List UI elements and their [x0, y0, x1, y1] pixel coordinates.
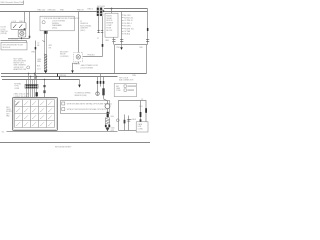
svg-text:G7 TAN: G7 TAN [124, 30, 131, 33]
svg-text:B6: B6 [37, 45, 39, 47]
svg-text:CONN: CONN [14, 88, 20, 90]
svg-text:F6 WHT 821: F6 WHT 821 [124, 28, 134, 30]
svg-text:CONN: CONN [138, 128, 144, 130]
svg-text:WITHOUT KEYLESS ENTRY KEYPAD O: WITHOUT KEYLESS ENTRY KEYPAD OPTION PG 2… [67, 108, 109, 111]
svg-text:SENSOR (VSS): SENSOR (VSS) [75, 95, 88, 97]
svg-text:CLUSTER): CLUSTER) [60, 56, 69, 58]
svg-text:796: 796 [48, 47, 51, 49]
svg-text:(VEC): (VEC) [80, 30, 85, 32]
svg-text:RED 140: RED 140 [38, 9, 46, 11]
svg-text:A/B CONNECTOR: A/B CONNECTOR [119, 79, 134, 82]
svg-text:G200: G200 [111, 128, 115, 130]
svg-text:LESS: LESS [116, 88, 120, 90]
svg-text:2005 Chevrolet Tahoe 1500: 2005 Chevrolet Tahoe 1500 [0, 1, 23, 4]
svg-text:MODULE: MODULE [3, 47, 11, 49]
svg-text:CODE: CODE [116, 90, 121, 92]
svg-text:RED 2: RED 2 [88, 9, 94, 11]
svg-text:E5 GRN: E5 GRN [124, 26, 131, 28]
svg-text:PNK 39: PNK 39 [74, 64, 80, 66]
svg-text:ORN 340: ORN 340 [48, 9, 56, 11]
svg-text:a: a [15, 101, 16, 103]
svg-text:ADAPTER USE: ADAPTER USE [14, 68, 27, 71]
svg-text:BLOCK: BLOCK [107, 30, 114, 32]
svg-text:LOCK SYSTEM: LOCK SYSTEM [80, 68, 93, 70]
svg-text:B2 BLK 451: B2 BLK 451 [124, 18, 133, 20]
svg-text:(2005): (2005) [52, 28, 58, 30]
svg-text:PNK 39: PNK 39 [77, 9, 84, 11]
svg-text:G2: G2 [2, 132, 4, 134]
svg-text:(DRVR): (DRVR) [1, 33, 8, 35]
svg-text:KEYLESS ENTRY: KEYLESS ENTRY [55, 146, 72, 148]
svg-text:PNK BLK: PNK BLK [88, 55, 96, 57]
svg-text:ORN 340: ORN 340 [59, 75, 66, 77]
svg-text:C1 8: C1 8 [37, 68, 41, 70]
svg-text:WITH KEYLESS ENTRY KEYPAD OPTI: WITH KEYLESS ENTRY KEYPAD OPTION SEE PAG… [67, 103, 113, 106]
svg-text:C3 PNK 39: C3 PNK 39 [124, 20, 133, 22]
svg-text:C1: C1 [97, 38, 99, 40]
svg-text:H8 BLU: H8 BLU [124, 34, 131, 36]
svg-text:D4 RED 2: D4 RED 2 [124, 23, 132, 25]
svg-text:A1 ORN: A1 ORN [124, 14, 131, 17]
